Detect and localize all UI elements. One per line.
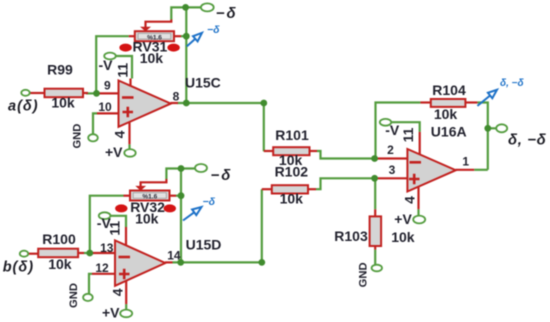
svg-text:3: 3 (389, 163, 396, 177)
svg-text:−δ: −δ (211, 167, 233, 184)
svg-text:b(δ): b(δ) (3, 259, 34, 275)
svg-text:10k: 10k (280, 191, 304, 207)
svg-text:9: 9 (104, 79, 111, 93)
svg-text:-V: -V (99, 57, 114, 73)
svg-text:4: 4 (112, 130, 128, 138)
svg-text:R102: R102 (275, 163, 309, 179)
svg-text:10k: 10k (51, 95, 75, 111)
svg-text:GND: GND (358, 262, 370, 287)
svg-text:8: 8 (173, 89, 180, 103)
svg-text:12: 12 (95, 261, 109, 275)
svg-text:R100: R100 (42, 231, 76, 247)
svg-text:+V: +V (105, 144, 123, 160)
svg-text:δ, −δ: δ, −δ (508, 131, 547, 148)
svg-text:10k: 10k (48, 256, 72, 272)
svg-text:−δ: −δ (203, 196, 216, 208)
svg-text:R101: R101 (275, 127, 309, 143)
svg-text:10k: 10k (135, 211, 159, 227)
svg-text:GND: GND (68, 283, 80, 308)
svg-text:-V: -V (385, 122, 400, 138)
svg-text:U16A: U16A (431, 124, 467, 140)
svg-text:11: 11 (115, 63, 131, 78)
svg-text:R99: R99 (47, 62, 73, 78)
svg-text:U15D: U15D (186, 237, 222, 253)
svg-text:−δ: −δ (207, 24, 220, 36)
svg-text:R103: R103 (334, 228, 368, 244)
svg-text:10k: 10k (140, 50, 164, 66)
svg-text:10: 10 (98, 100, 112, 114)
svg-text:+V: +V (102, 305, 120, 321)
svg-text:R104: R104 (432, 82, 466, 98)
svg-text:+V: +V (394, 211, 412, 227)
svg-text:4: 4 (110, 288, 126, 296)
svg-text:U15C: U15C (185, 75, 221, 91)
svg-text:14: 14 (167, 249, 181, 263)
svg-text:11: 11 (400, 127, 416, 142)
svg-text:a(δ): a(δ) (8, 99, 39, 115)
svg-text:2: 2 (387, 143, 394, 157)
svg-text:13: 13 (100, 241, 114, 255)
svg-text:10k: 10k (391, 229, 415, 245)
svg-text:10k: 10k (434, 106, 458, 122)
svg-text:11: 11 (106, 221, 122, 236)
svg-text:δ, −δ: δ, −δ (500, 78, 525, 89)
svg-text:1: 1 (462, 154, 469, 168)
svg-text:GND: GND (72, 124, 84, 149)
svg-text:−δ: −δ (216, 5, 238, 22)
svg-text:4: 4 (402, 196, 418, 204)
